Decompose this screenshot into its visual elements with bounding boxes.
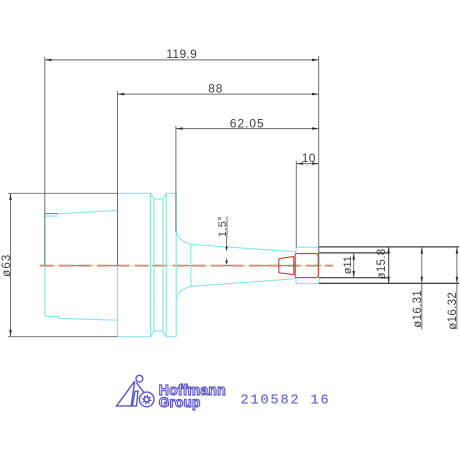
arrowhead right xyxy=(312,93,319,96)
shank left face xyxy=(44,216,46,317)
svg-text:ø16.31: ø16.31 xyxy=(412,290,424,328)
arrowhead left xyxy=(296,162,303,165)
arrowhead top xyxy=(9,193,12,200)
arrowhead right xyxy=(312,162,319,165)
arrowhead bottom xyxy=(456,277,459,284)
extension line bottom of flange xyxy=(8,336,118,338)
extension line at flange left face x=117.5 xyxy=(117,91,119,265)
centerline xyxy=(38,265,333,267)
HSK shank outline (cyan) xyxy=(45,193,319,336)
arrowhead bottom xyxy=(352,271,355,278)
red coolant tube part xyxy=(279,254,319,278)
extension line at left face x=44.8 xyxy=(44,57,46,266)
arrowhead at centerline xyxy=(225,260,228,265)
neck taper top 1.5deg xyxy=(191,244,296,252)
dimension 10 xyxy=(296,151,318,248)
dimension line 62.05 xyxy=(176,128,319,130)
dimension line dia15.8 on sleeve end face xyxy=(388,247,390,284)
logo triangle body xyxy=(117,381,135,406)
tip cylinder xyxy=(279,258,282,273)
cone fillet bottom xyxy=(176,286,191,300)
leader stub upper xyxy=(226,238,228,246)
Hoffmann Group logo icon xyxy=(117,375,155,406)
bore line top xyxy=(319,252,389,254)
arrowhead left xyxy=(176,127,183,130)
svg-text:1.5°: 1.5° xyxy=(217,216,229,237)
sleeve right face xyxy=(388,247,390,284)
svg-text:210582 16: 210582 16 xyxy=(241,393,331,408)
extension line top of flange xyxy=(8,192,118,194)
arrowhead right xyxy=(312,127,319,130)
svg-text:ø63: ø63 xyxy=(1,253,13,276)
clamping sleeve (dark outline) xyxy=(319,247,459,284)
logo right leg strip xyxy=(132,391,138,406)
leader stub lower xyxy=(226,258,228,260)
svg-text:119.9: 119.9 xyxy=(166,47,197,61)
dimension line dia16.32 xyxy=(456,247,458,330)
arrowhead at taper line xyxy=(225,247,228,252)
extension line at flange right face x=176 xyxy=(175,126,177,232)
bore line bottom xyxy=(319,277,389,279)
cone fillet top xyxy=(176,231,191,245)
arrowhead bottom xyxy=(9,330,12,337)
arrowhead top xyxy=(421,247,424,254)
svg-text:Group: Group xyxy=(159,395,201,410)
svg-text:62.05: 62.05 xyxy=(230,116,265,130)
dimension line dia16.31 xyxy=(421,247,423,330)
dimension line 119.9 xyxy=(45,59,319,61)
shank end chamfer bottom xyxy=(45,316,59,318)
neck taper bottom 1.5deg xyxy=(191,279,296,287)
centerline gray dashes xyxy=(72,265,322,267)
dimension line dia63 xyxy=(10,193,12,336)
shank end chamfer top xyxy=(45,215,59,217)
body sleeve xyxy=(295,254,318,278)
dimension dia11 xyxy=(342,253,355,278)
sleeve bottom xyxy=(319,282,459,284)
flange left face xyxy=(117,193,119,336)
arrowhead bottom xyxy=(387,277,390,284)
dimension line 10 xyxy=(296,163,318,165)
svg-text:ø11: ø11 xyxy=(342,256,354,274)
dimension dia63 xyxy=(1,193,118,336)
dimension dia15.8 xyxy=(376,247,390,284)
flange right face xyxy=(175,193,177,336)
dimension line 88 xyxy=(118,93,319,95)
body right closure xyxy=(317,256,319,275)
logo arm xyxy=(136,383,144,393)
arrowhead bottom xyxy=(421,277,424,284)
arrowhead right xyxy=(312,59,319,62)
svg-text:88: 88 xyxy=(208,81,223,95)
svg-text:ø16.32: ø16.32 xyxy=(447,292,459,330)
arrowhead top xyxy=(352,253,355,260)
centerline red dashes xyxy=(40,265,333,267)
extension line at nose land x=296.3 xyxy=(295,161,297,248)
arrowhead left xyxy=(45,59,52,62)
expanding cone xyxy=(281,257,294,275)
leader line beside text xyxy=(226,217,228,239)
centerline yellow base xyxy=(38,265,333,267)
shank taper bottom xyxy=(58,318,117,320)
dimension 119.9 xyxy=(45,47,319,265)
dimension 62.05 xyxy=(176,116,319,232)
shank end edge top (dark) xyxy=(45,213,59,215)
svg-text:10: 10 xyxy=(302,151,316,165)
dimension line dia11 xyxy=(353,253,355,278)
nose step xyxy=(296,247,319,283)
flange top with gripper groove xyxy=(118,193,177,199)
shank taper top xyxy=(58,210,117,213)
logo head xyxy=(136,375,143,382)
groove silhouette lines xyxy=(149,194,151,337)
sleeve top xyxy=(319,246,459,248)
flange bottom with gripper groove xyxy=(118,331,177,337)
arrowhead top xyxy=(387,247,390,254)
dimension 88 xyxy=(118,81,319,265)
dimension dia16.32 xyxy=(447,247,459,330)
dimension 1.5deg taper angle xyxy=(217,216,229,265)
arrowhead left xyxy=(118,93,125,96)
cone-neck junction edge xyxy=(190,244,192,286)
dimension dia16.31 xyxy=(412,247,424,330)
svg-text:ø15.8: ø15.8 xyxy=(376,249,388,280)
arrowhead top xyxy=(456,247,459,254)
logo gear ring xyxy=(139,392,154,407)
extension line at nose face x=318.7 xyxy=(318,56,320,266)
logo gear star xyxy=(141,394,152,405)
